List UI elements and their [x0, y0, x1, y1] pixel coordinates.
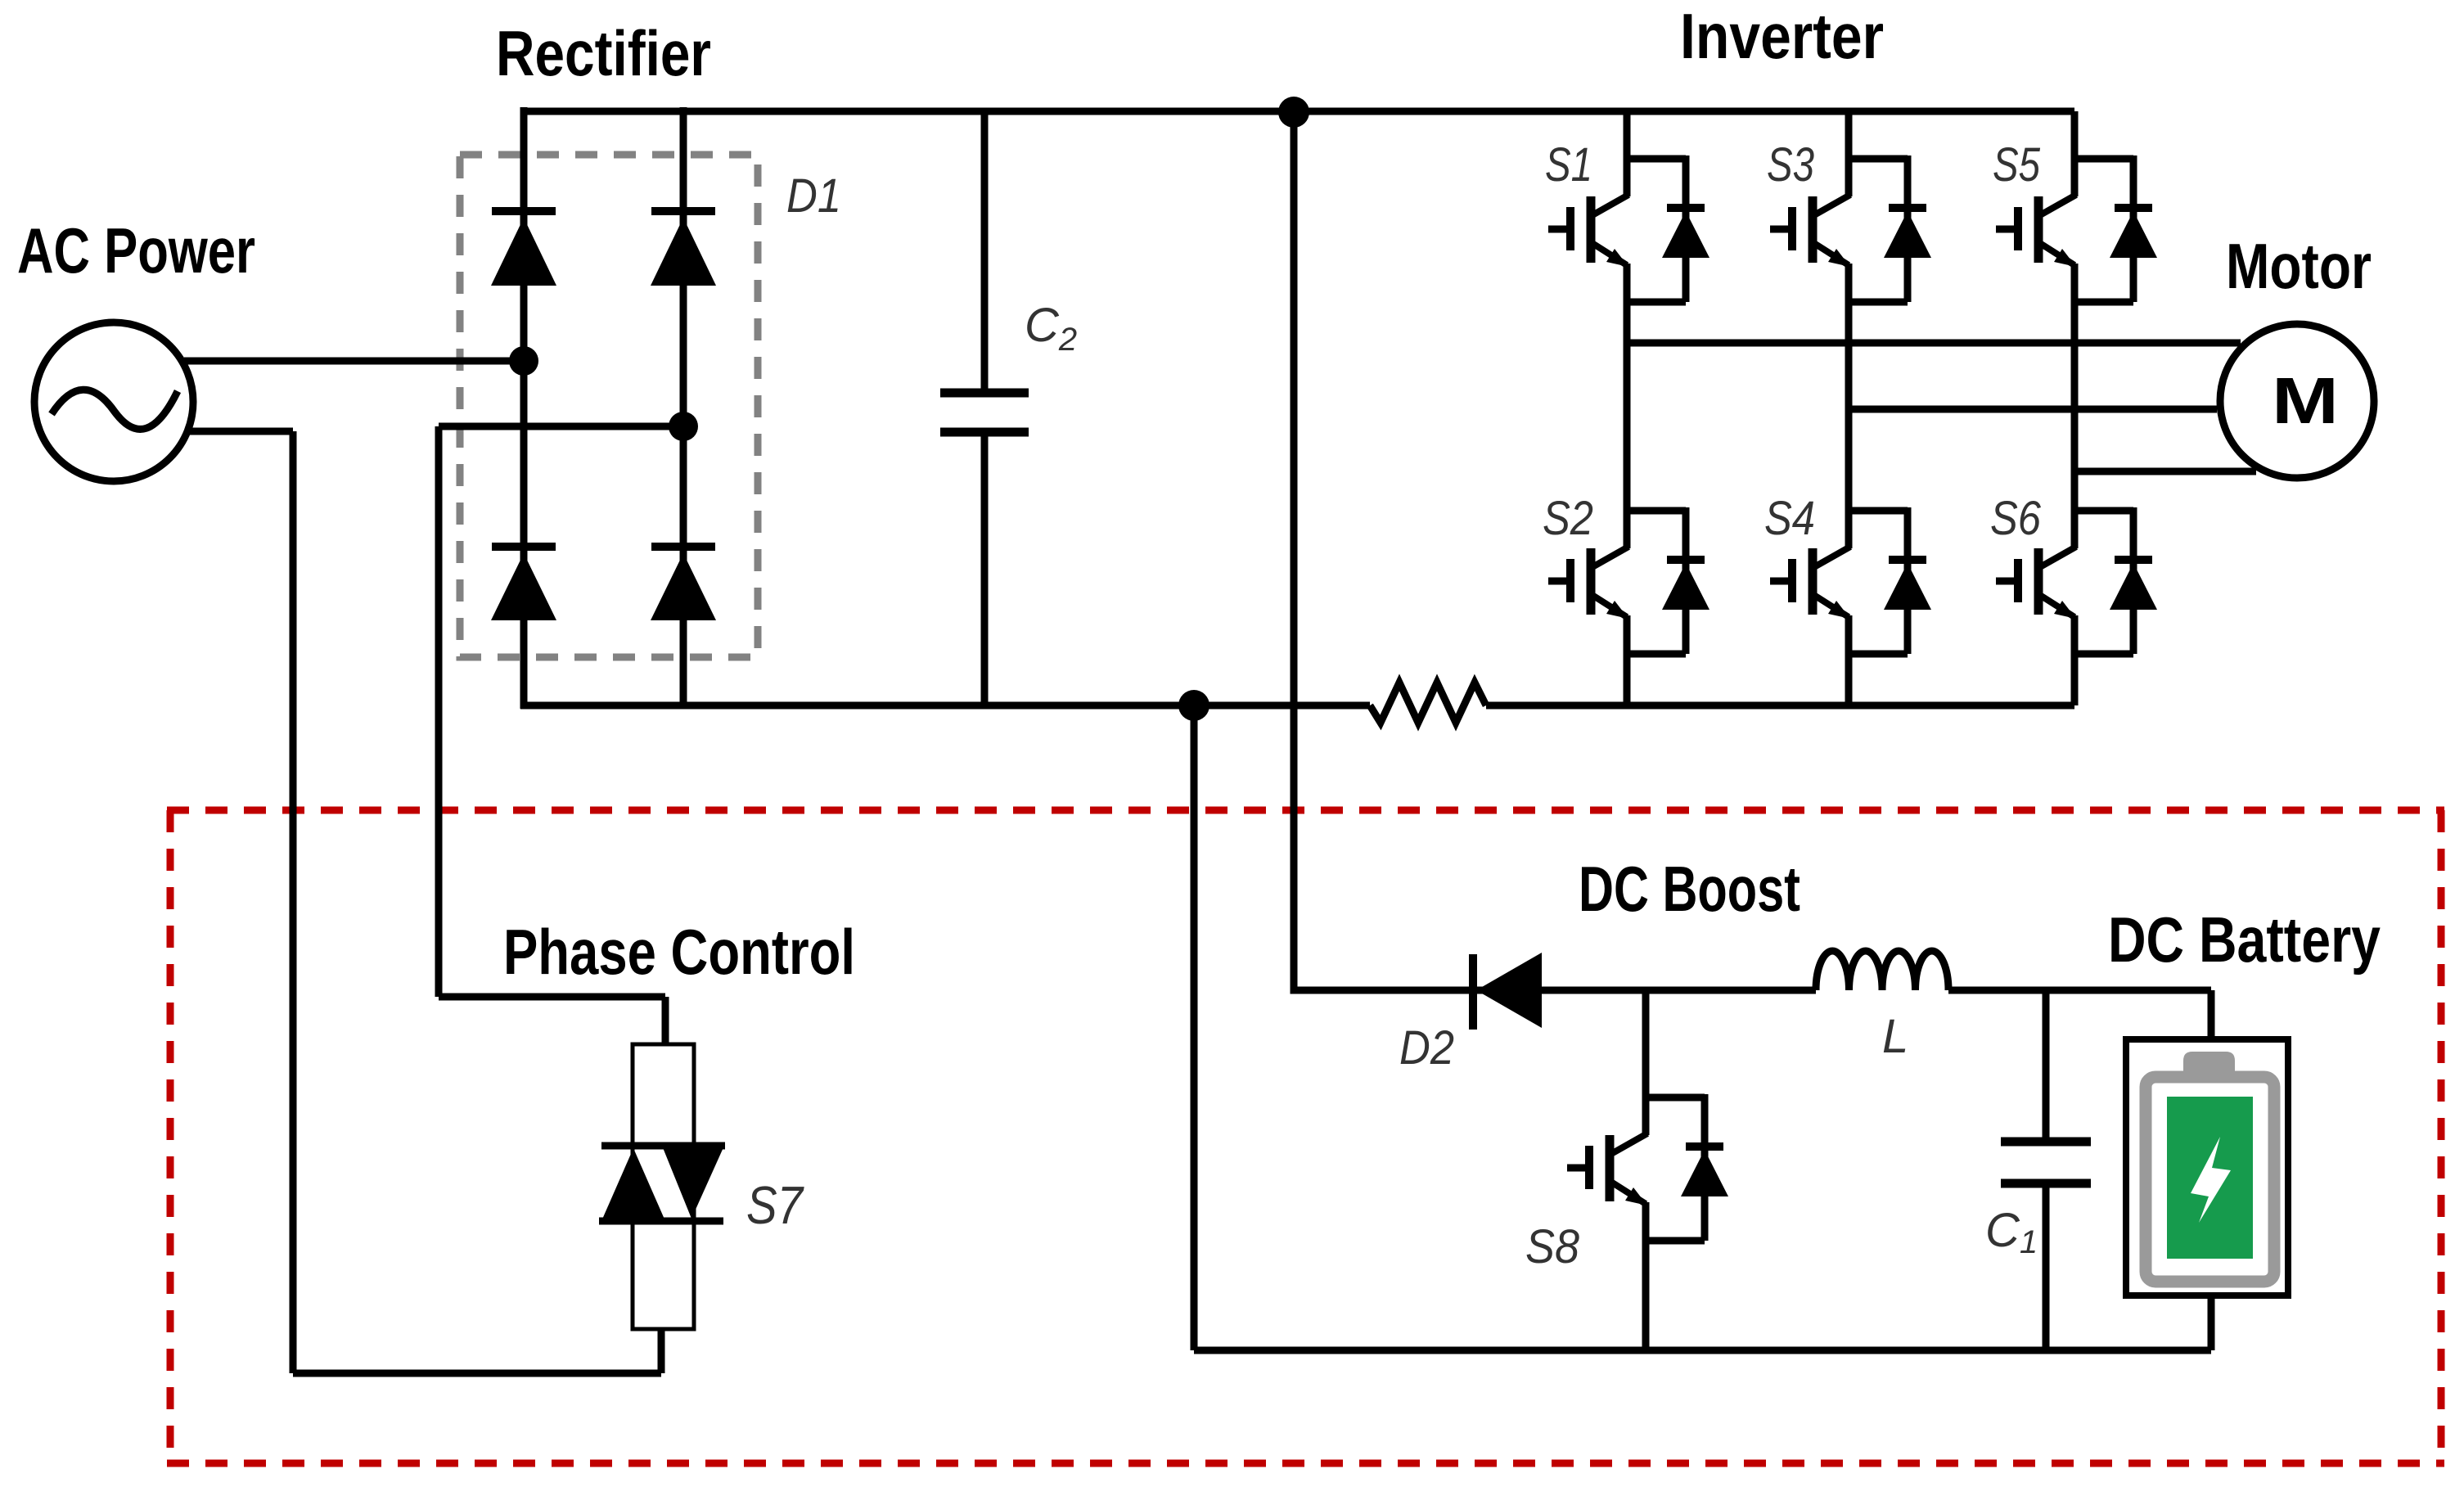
node junction on bottom rail — [1178, 690, 1209, 721]
wire rectifier left leg — [520, 107, 528, 709]
wire from bottom rail down to boost return rail — [1191, 705, 1198, 1350]
capacitor C2 bottom lead — [981, 432, 989, 705]
wire inverter leg C middle — [2071, 264, 2079, 548]
transistor S8 — [1567, 1094, 1728, 1241]
wire inverter leg B bottom — [1845, 615, 1853, 705]
wire bottom DC- rail right of resistor — [1486, 702, 2074, 710]
battery icon cap — [2183, 1052, 2235, 1077]
wire AC top terminal to bridge — [184, 358, 524, 365]
wire S8 branch emitter — [1642, 1202, 1650, 1350]
svg-text:S4: S4 — [1764, 492, 1815, 545]
capacitor C1 bottom lead — [2043, 1183, 2050, 1350]
triac S7 — [599, 1146, 725, 1221]
transistor S5 — [1996, 155, 2157, 302]
wire S8 branch collector — [1642, 990, 1650, 1135]
svg-text:S6: S6 — [1990, 492, 2042, 545]
wire bottom DC- rail left of resistor — [520, 702, 1370, 710]
capacitor C1 plates — [2001, 1142, 2091, 1183]
svg-text:D2: D2 — [1399, 1021, 1454, 1075]
svg-text:Phase Control: Phase Control — [503, 916, 855, 988]
inductor L — [1816, 951, 1948, 990]
wire inverter leg A top — [1624, 111, 1631, 196]
AC power source circle — [34, 322, 193, 481]
transistor S6 — [1996, 507, 2157, 654]
wire bridge midpoint horizontal — [439, 423, 683, 430]
battery outer box — [2126, 1039, 2288, 1295]
wire from top rail down to DC boost — [1294, 112, 1476, 990]
svg-text:S3: S3 — [1767, 138, 1814, 192]
node junction on left bridge leg — [509, 346, 538, 376]
wire phase control return horizontal — [293, 1370, 661, 1377]
svg-text:Rectifier: Rectifier — [496, 17, 711, 89]
wire phase control feed down — [662, 997, 669, 1044]
svg-text:M: M — [2272, 365, 2339, 438]
battery icon body — [2146, 1077, 2274, 1282]
svg-text:D1: D1 — [786, 169, 841, 223]
resistor box of phase control — [633, 1044, 694, 1329]
wire inverter leg A middle — [1624, 264, 1631, 548]
motor circle — [2220, 324, 2374, 478]
svg-text:S5: S5 — [1993, 138, 2041, 192]
wire phase control bottom down — [658, 1329, 665, 1373]
battery icon green cell — [2167, 1097, 2253, 1259]
wire battery bottom lead — [2208, 1293, 2215, 1350]
AC sine wave — [52, 390, 178, 429]
diode D1 upper-right — [651, 211, 716, 286]
svg-text:DC Boost: DC Boost — [1579, 853, 1800, 925]
wire inverter leg A bottom — [1624, 615, 1631, 705]
capacitor C2 plates — [940, 393, 1029, 432]
capacitor C1 top lead — [2043, 990, 2050, 1142]
wire rectifier right leg — [680, 107, 687, 709]
svg-text:Motor: Motor — [2226, 230, 2372, 302]
wire inductor to battery — [1948, 987, 2211, 994]
node junction on right bridge leg — [669, 412, 698, 441]
charger section red dashed box — [167, 810, 2444, 1463]
wire phase B to motor — [1849, 406, 2217, 413]
svg-text:S7: S7 — [746, 1175, 804, 1235]
diode D1 lower-left — [491, 547, 556, 620]
wire AC bottom terminal — [188, 428, 293, 435]
svg-text:L: L — [1882, 1010, 1908, 1063]
capacitor C2 top lead — [981, 111, 989, 393]
rectifier bridge D1 dashed box — [460, 155, 758, 657]
diode D2 — [1473, 953, 1542, 1030]
node junction on top rail — [1278, 97, 1309, 128]
svg-text:S2: S2 — [1543, 492, 1593, 545]
diode D1 upper-left — [491, 211, 556, 286]
wire inverter leg C top — [2071, 111, 2079, 196]
transistor S3 — [1770, 155, 1931, 302]
wire bridge midpoint down to phase control — [435, 426, 443, 997]
diode D1 lower-right — [651, 547, 716, 620]
wire battery top lead — [2208, 990, 2215, 1043]
wire phase A to motor — [1627, 340, 2241, 347]
wire AC bottom down to phase control return — [290, 431, 297, 1373]
wire phase C to motor — [2074, 468, 2256, 475]
wire top DC+ rail — [524, 108, 2074, 115]
battery icon lightning bolt — [2191, 1137, 2231, 1223]
transistor S1 — [1548, 155, 1709, 302]
transistor S2 — [1548, 507, 1709, 654]
svg-text:S1: S1 — [1545, 138, 1592, 192]
wire DC boost bottom return rail — [1194, 1347, 2211, 1354]
wire DC boost top rail — [1476, 987, 1816, 994]
svg-text:S8: S8 — [1525, 1220, 1579, 1273]
transistor S4 — [1770, 507, 1931, 654]
svg-text:Inverter: Inverter — [1680, 0, 1884, 72]
resistor R in DC- rail — [1370, 683, 1486, 723]
wire inverter leg C bottom — [2071, 615, 2079, 705]
svg-text:AC Power: AC Power — [17, 214, 255, 286]
wire phase control feed horizontal — [439, 994, 665, 1001]
wire inverter leg B top — [1845, 111, 1853, 196]
svg-text:DC Battery: DC Battery — [2108, 903, 2381, 976]
wire inverter leg B middle — [1845, 264, 1853, 548]
